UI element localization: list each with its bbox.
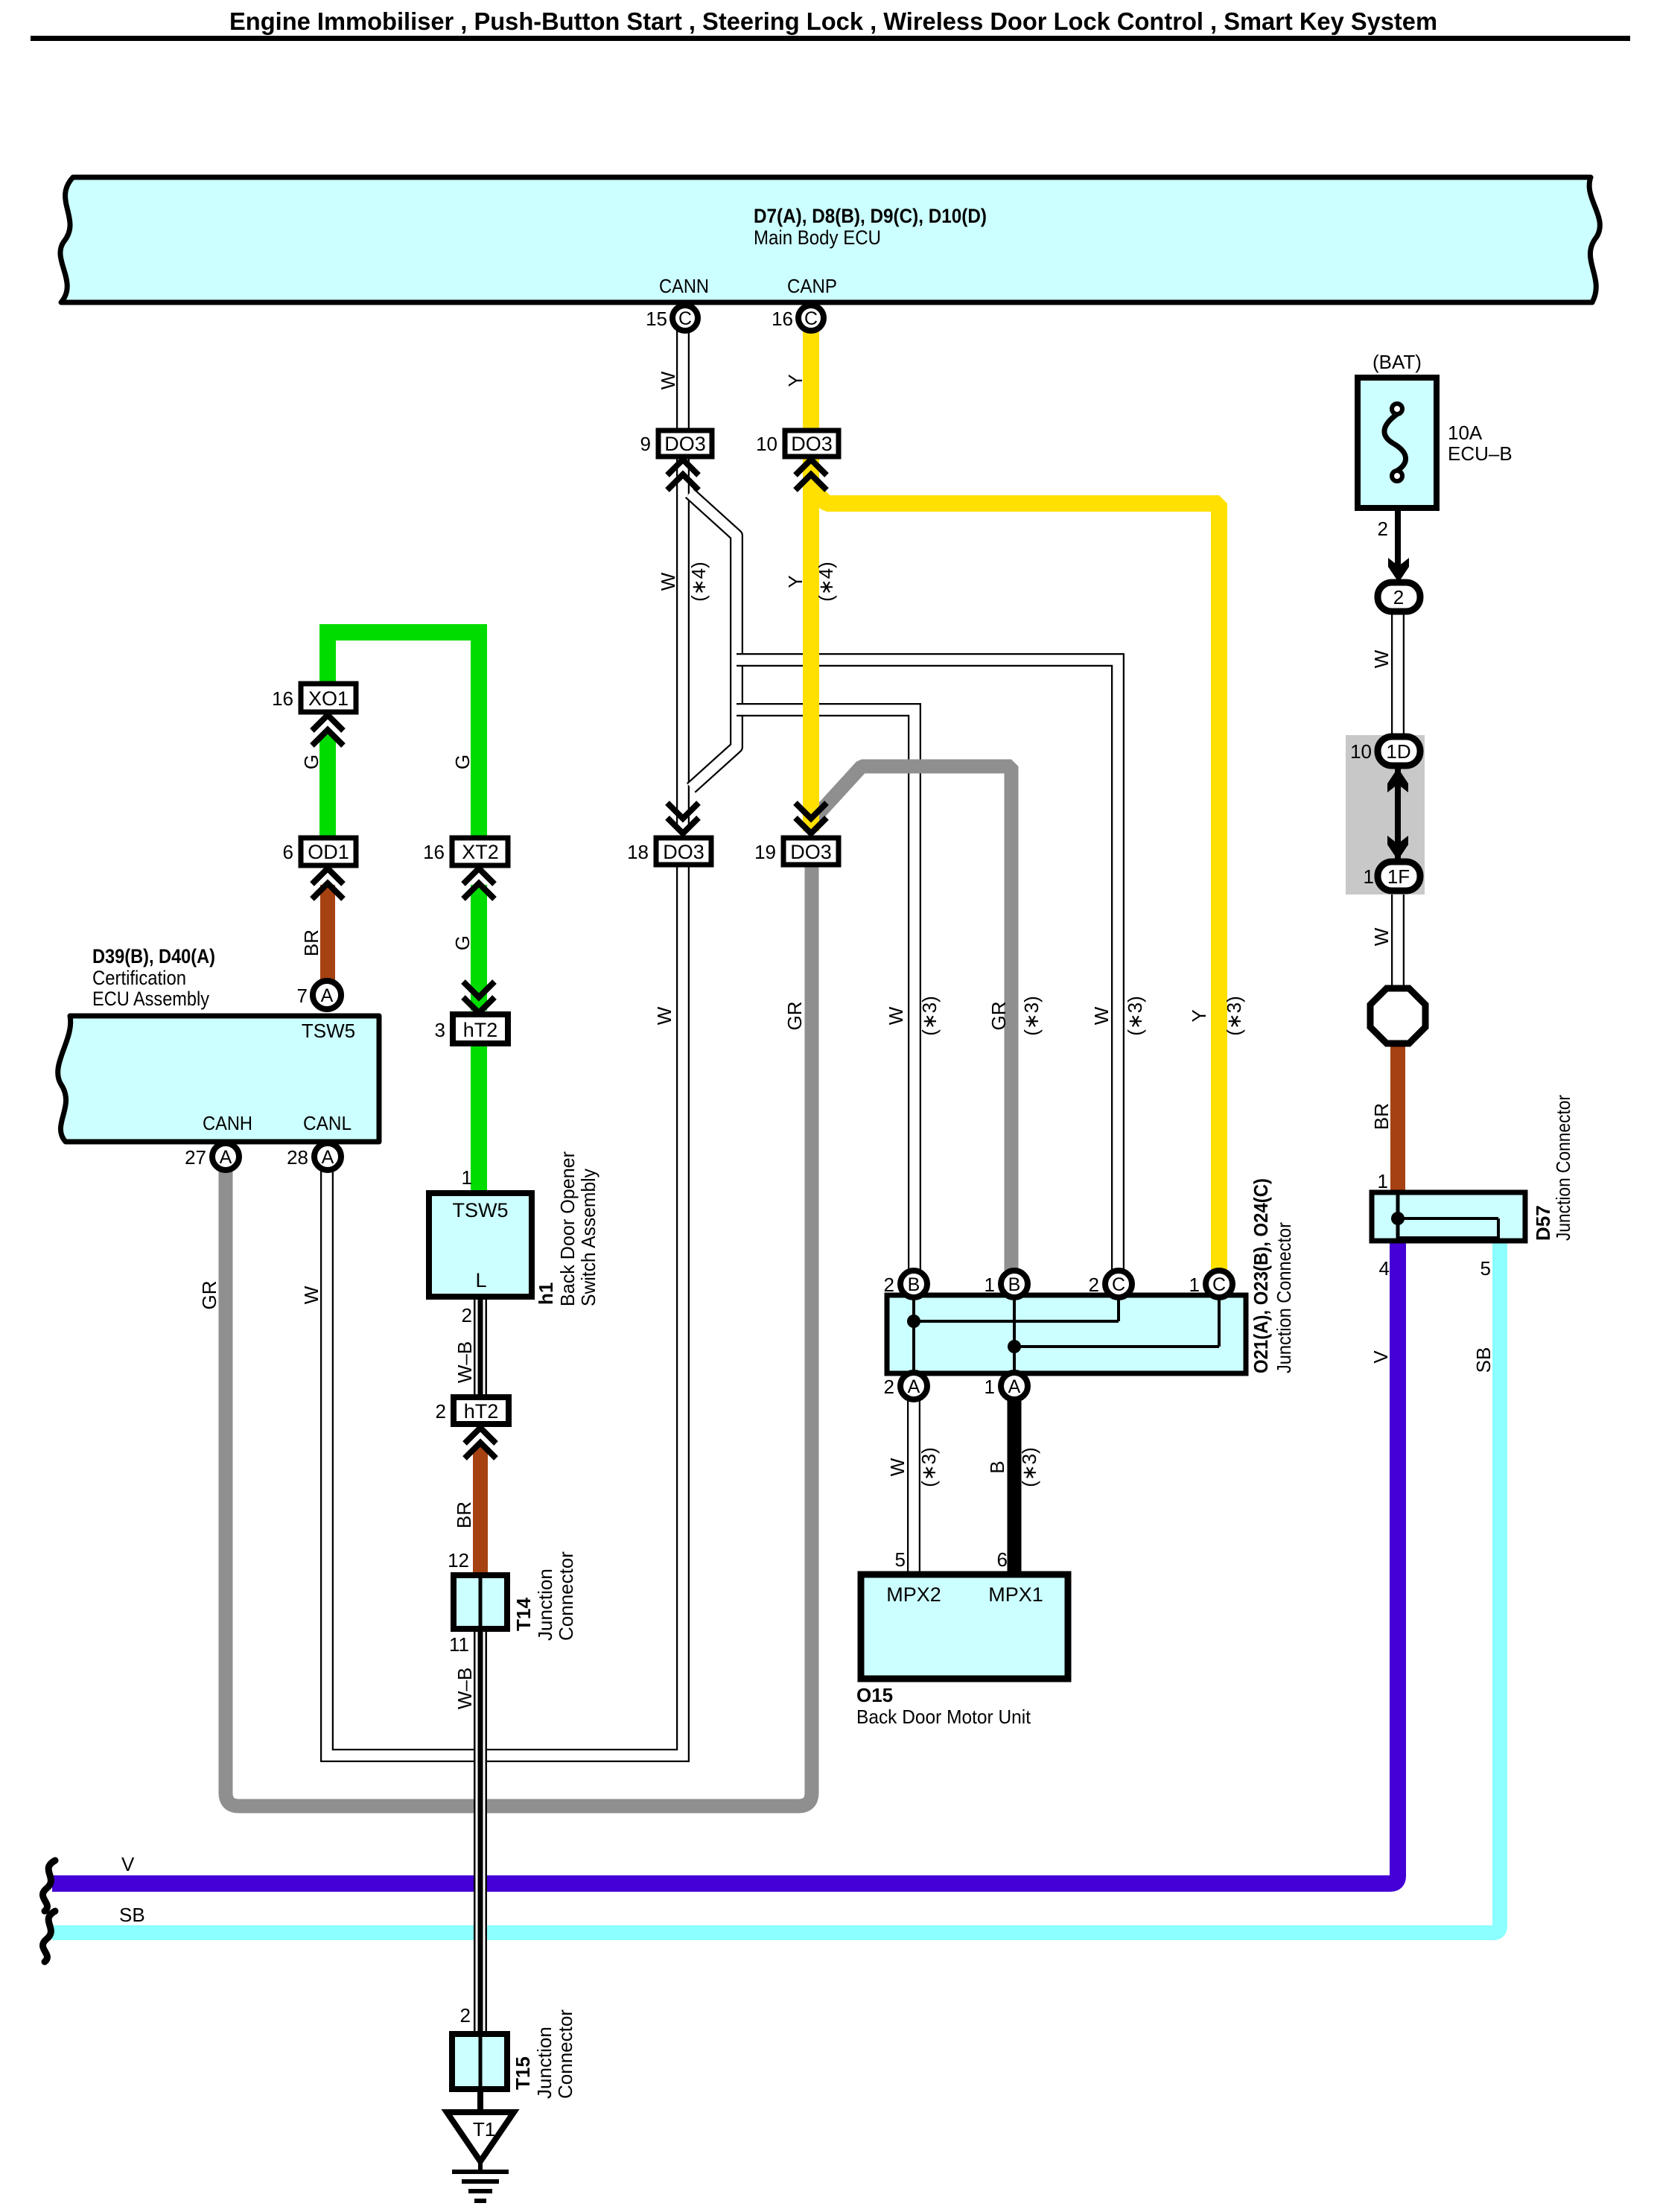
wire BR below hT2 2 chevron to T14 pin12 xyxy=(473,1446,488,1577)
connector 18 DO3 xyxy=(627,838,711,865)
O21 pin 1A xyxy=(985,1373,1028,1399)
svg-text:W: W xyxy=(1090,1006,1113,1025)
connector 10 DO3 xyxy=(756,430,839,457)
svg-text:Back Door Motor Unit: Back Door Motor Unit xyxy=(856,1706,1031,1728)
arrow up to 1D xyxy=(1387,768,1408,792)
svg-text:Connector: Connector xyxy=(554,2009,576,2099)
svg-text:A: A xyxy=(220,1147,232,1168)
O21 pin 2B xyxy=(884,1271,927,1297)
svg-text:W–B: W–B xyxy=(454,1668,476,1709)
octagon connector xyxy=(1370,988,1425,1043)
wire W-B TSW5 pin2 to hT2 2 xyxy=(474,1297,487,1399)
svg-text:(∗3): (∗3) xyxy=(1223,996,1245,1036)
O21 pin 2C xyxy=(1089,1271,1132,1297)
arrow down to 1F xyxy=(1387,836,1408,860)
svg-text:DO3: DO3 xyxy=(790,841,832,863)
svg-text:W: W xyxy=(1370,927,1393,946)
ellipse connector 1F xyxy=(1364,862,1420,891)
chevrons above hT2 3 xyxy=(463,982,494,1013)
svg-text:2: 2 xyxy=(460,2004,471,2027)
svg-text:G: G xyxy=(451,754,474,769)
svg-text:DO3: DO3 xyxy=(663,841,704,863)
pin 15 C of Main Body ECU xyxy=(646,305,698,331)
pin 7 A of Certification ECU xyxy=(297,981,341,1009)
wire W 1F to octagon xyxy=(1391,889,1405,988)
svg-text:W–B: W–B xyxy=(454,1341,476,1383)
svg-text:T14: T14 xyxy=(512,1598,535,1631)
svg-text:Junction Connector: Junction Connector xyxy=(1552,1095,1574,1241)
svg-text:Back Door Opener: Back Door Opener xyxy=(556,1151,579,1306)
wire W from DO3 18 down, left, up to CANL 28A xyxy=(327,865,683,1755)
O21 pin 1C xyxy=(1189,1271,1232,1297)
svg-text:C: C xyxy=(804,308,818,329)
svg-text:2: 2 xyxy=(436,1400,446,1423)
svg-text:12: 12 xyxy=(448,1549,469,1571)
pin 27 A of Certification ECU xyxy=(185,1143,239,1170)
svg-text:O21(A), O23(B), O24(C): O21(A), O23(B), O24(C) xyxy=(1250,1178,1272,1373)
svg-text:9: 9 xyxy=(640,433,651,455)
fuse 10A ECU-B xyxy=(1358,378,1437,508)
chevrons below 10 DO3 xyxy=(795,460,827,490)
svg-text:G: G xyxy=(451,935,474,950)
svg-text:Switch Assembly: Switch Assembly xyxy=(577,1169,599,1306)
ellipse connector 1D xyxy=(1350,737,1420,766)
wire W-B T14 pin11 to T15 pin2 xyxy=(474,1629,487,2035)
wire G hT2 3 to TSW5 pin1 xyxy=(471,1043,487,1195)
svg-text:D39(B), D40(A): D39(B), D40(A) xyxy=(92,945,215,967)
svg-text:4: 4 xyxy=(1379,1257,1390,1280)
svg-text:16: 16 xyxy=(423,841,445,863)
chevrons below OD1 xyxy=(312,868,343,899)
svg-text:16: 16 xyxy=(772,308,793,330)
svg-text:V: V xyxy=(121,1853,135,1875)
svg-text:C: C xyxy=(1112,1274,1125,1295)
svg-text:XT2: XT2 xyxy=(462,841,499,863)
svg-text:6: 6 xyxy=(283,841,293,863)
svg-text:O15: O15 xyxy=(856,1684,893,1706)
svg-text:Certification: Certification xyxy=(92,967,186,989)
grey block 1D-1F xyxy=(1346,735,1425,894)
svg-text:2: 2 xyxy=(1089,1274,1099,1296)
svg-text:CANP: CANP xyxy=(787,275,837,297)
svg-text:16: 16 xyxy=(272,687,293,710)
svg-text:L: L xyxy=(475,1269,486,1291)
svg-text:10: 10 xyxy=(756,433,777,455)
svg-text:W: W xyxy=(885,1006,907,1025)
svg-text:1: 1 xyxy=(1189,1274,1200,1296)
svg-text:CANN: CANN xyxy=(659,275,709,297)
WIRES-COLOR xyxy=(52,331,1500,2112)
svg-text:10A: 10A xyxy=(1448,422,1483,444)
svg-text:1: 1 xyxy=(1364,865,1374,888)
svg-text:W: W xyxy=(657,371,679,390)
svg-text:Junction: Junction xyxy=(533,2027,556,2099)
wire Y CANP 16C down to DO3 19 xyxy=(803,331,819,831)
svg-text:Main Body ECU: Main Body ECU xyxy=(754,226,881,249)
pin 16 C of Main Body ECU xyxy=(772,305,824,331)
svg-text:MPX2: MPX2 xyxy=(886,1583,941,1606)
svg-text:18: 18 xyxy=(627,841,649,863)
svg-text:1: 1 xyxy=(985,1376,995,1398)
svg-text:TSW5: TSW5 xyxy=(452,1199,508,1221)
wire B O21 1A to O15 MPX1 xyxy=(1008,1399,1022,1574)
svg-text:1D: 1D xyxy=(1386,740,1410,763)
wire W ellipse2 to 1D xyxy=(1391,609,1405,738)
O15 Back Door Motor Unit box xyxy=(861,1548,1068,1679)
chevrons above 19 DO3 xyxy=(795,803,827,833)
svg-text:BR: BR xyxy=(1370,1103,1393,1130)
svg-text:(∗3): (∗3) xyxy=(918,996,941,1036)
svg-text:Y: Y xyxy=(784,374,807,387)
svg-text:15: 15 xyxy=(646,308,667,330)
svg-text:2: 2 xyxy=(1393,586,1404,608)
wire BR below OD1 chevron to pin 7A xyxy=(320,885,335,981)
svg-text:6: 6 xyxy=(997,1548,1008,1571)
svg-text:T1: T1 xyxy=(473,2118,495,2141)
ellipse connector 2 xyxy=(1378,582,1420,611)
svg-text:ECU–B: ECU–B xyxy=(1448,442,1513,465)
svg-text:Junction: Junction xyxy=(534,1569,556,1641)
TSW5 Back Door Opener Switch h1 xyxy=(429,1193,532,1297)
wire V D57 pin4 down and across xyxy=(52,1241,1398,1884)
wire Y (*3) branch to O21 1C xyxy=(813,490,1219,1271)
svg-text:W: W xyxy=(657,572,679,591)
svg-text:h1: h1 xyxy=(535,1283,557,1305)
Certification ECU Assembly box D39 D40 xyxy=(58,1016,379,1142)
svg-text:C: C xyxy=(1212,1274,1226,1295)
svg-text:(∗4): (∗4) xyxy=(687,562,710,602)
svg-text:A: A xyxy=(1008,1376,1021,1397)
svg-text:CANH: CANH xyxy=(203,1112,252,1134)
svg-text:W: W xyxy=(300,1285,322,1304)
ground T1 xyxy=(447,2112,514,2201)
wire W (*3) branch to O21 2B xyxy=(737,710,915,1271)
svg-text:hT2: hT2 xyxy=(464,1400,499,1423)
svg-text:XO1: XO1 xyxy=(308,687,349,710)
connector 16 XO1 xyxy=(272,684,356,712)
svg-text:B: B xyxy=(1008,1274,1021,1295)
svg-text:(∗3): (∗3) xyxy=(1020,996,1043,1036)
title rule xyxy=(31,36,1630,41)
wire SB D57 pin5 down and across xyxy=(52,1241,1500,1933)
O21 junction connector box xyxy=(887,1295,1246,1373)
svg-text:B: B xyxy=(908,1274,920,1295)
svg-text:7: 7 xyxy=(297,985,308,1007)
wire W (*3) O21 2A to O15 MPX2 xyxy=(907,1399,920,1574)
connector 3 hT2 xyxy=(435,1014,508,1043)
svg-text:BR: BR xyxy=(453,1501,475,1528)
T15 junction connector xyxy=(452,2034,507,2089)
svg-text:Engine Immobiliser , Push-Butt: Engine Immobiliser , Push-Button Start ,… xyxy=(229,7,1437,35)
wire W (*3) bulge fork below 9 DO3 xyxy=(690,493,737,788)
svg-text:1: 1 xyxy=(985,1274,995,1296)
connector 6 OD1 xyxy=(283,838,356,865)
svg-text:2: 2 xyxy=(462,1304,472,1326)
Main Body ECU box D7-D10 xyxy=(60,177,1600,302)
squiggle SB xyxy=(42,1911,55,1962)
chevrons below XT2 xyxy=(463,868,494,899)
wire W CANN 15C down to DO3 18 xyxy=(676,331,690,831)
svg-text:(BAT): (BAT) xyxy=(1372,351,1422,373)
connector 9 DO3 xyxy=(640,430,712,457)
WIRES-WHITE xyxy=(327,331,1398,1755)
connector 16 XT2 xyxy=(423,838,508,865)
svg-text:hT2: hT2 xyxy=(463,1019,498,1041)
arrow below fuse xyxy=(1388,558,1409,582)
chevrons below XO1 xyxy=(312,715,343,746)
svg-text:V: V xyxy=(1370,1350,1392,1364)
svg-text:D57: D57 xyxy=(1532,1205,1554,1241)
svg-text:OD1: OD1 xyxy=(308,841,349,863)
svg-text:DO3: DO3 xyxy=(664,433,706,455)
svg-text:DO3: DO3 xyxy=(791,433,833,455)
svg-text:TSW5: TSW5 xyxy=(302,1020,355,1042)
wire GR (*3) from DO3 19 to O21 1B xyxy=(813,766,1011,1271)
svg-text:BR: BR xyxy=(300,929,322,956)
svg-text:(∗3): (∗3) xyxy=(1018,1447,1040,1487)
svg-text:Connector: Connector xyxy=(555,1551,577,1641)
pin 28 A of Certification ECU xyxy=(287,1143,341,1170)
svg-text:Junction Connector: Junction Connector xyxy=(1273,1222,1295,1373)
O21 pin 1B xyxy=(985,1271,1028,1297)
connector 19 DO3 xyxy=(754,838,839,865)
svg-text:SB: SB xyxy=(119,1904,145,1926)
O21 pin 2A xyxy=(884,1373,927,1399)
svg-text:3: 3 xyxy=(435,1019,445,1041)
svg-text:T15: T15 xyxy=(512,2056,534,2090)
chevrons below 9 DO3 xyxy=(667,460,699,490)
svg-text:19: 19 xyxy=(754,841,776,863)
svg-text:GR: GR xyxy=(783,1002,806,1031)
squiggle V xyxy=(42,1860,55,1911)
wire G below XT2 to hT2 3 xyxy=(471,885,487,1011)
svg-text:(∗3): (∗3) xyxy=(917,1447,940,1487)
svg-text:2: 2 xyxy=(1378,518,1388,540)
svg-text:1: 1 xyxy=(462,1166,472,1189)
svg-text:W: W xyxy=(1370,649,1393,668)
wire G below XO1 chevron to OD1 xyxy=(319,734,336,839)
svg-text:11: 11 xyxy=(449,1633,469,1656)
svg-text:2: 2 xyxy=(884,1376,894,1398)
connector 2 hT2 xyxy=(436,1397,509,1424)
svg-text:ECU Assembly: ECU Assembly xyxy=(92,988,209,1010)
svg-text:MPX1: MPX1 xyxy=(988,1583,1043,1606)
svg-text:C: C xyxy=(678,308,692,329)
chevrons below 2 hT2 xyxy=(465,1428,496,1458)
svg-text:GR: GR xyxy=(987,1002,1010,1031)
svg-text:A: A xyxy=(908,1376,920,1397)
svg-text:GR: GR xyxy=(198,1281,220,1310)
svg-text:W: W xyxy=(886,1458,909,1476)
svg-text:Y: Y xyxy=(784,575,807,588)
svg-text:1: 1 xyxy=(1378,1170,1388,1192)
wire GR CANH 27A down, right, up to DO3 19 xyxy=(226,865,812,1806)
svg-text:28: 28 xyxy=(287,1146,308,1169)
D57 junction connector xyxy=(1372,1192,1525,1241)
svg-text:CANL: CANL xyxy=(303,1112,352,1134)
svg-text:B: B xyxy=(986,1461,1008,1473)
svg-text:SB: SB xyxy=(1472,1347,1495,1373)
svg-text:A: A xyxy=(322,1147,334,1168)
svg-text:W: W xyxy=(653,1006,675,1025)
svg-text:5: 5 xyxy=(1480,1257,1491,1280)
svg-text:1F: 1F xyxy=(1387,865,1410,888)
svg-text:27: 27 xyxy=(185,1146,206,1169)
svg-text:A: A xyxy=(321,985,334,1006)
svg-text:(∗4): (∗4) xyxy=(815,562,837,602)
wire T15 to ground T1 xyxy=(477,2089,483,2112)
svg-text:5: 5 xyxy=(895,1548,906,1571)
T14 junction connector xyxy=(454,1575,507,1629)
svg-text:10: 10 xyxy=(1350,740,1372,763)
svg-text:Y: Y xyxy=(1188,1009,1210,1022)
wire 1D to 1F xyxy=(1395,764,1401,862)
wire G loop XO1 to XT2 xyxy=(328,632,479,839)
chevrons above 18 DO3 xyxy=(667,803,699,833)
svg-text:G: G xyxy=(300,754,322,769)
wire W (*3) branch to O21 2C xyxy=(737,660,1118,1271)
wire from fuse to arrow xyxy=(1395,506,1401,572)
svg-text:(∗3): (∗3) xyxy=(1124,996,1146,1036)
svg-text:2: 2 xyxy=(884,1274,894,1296)
svg-text:D7(A), D8(B), D9(C), D10(D): D7(A), D8(B), D9(C), D10(D) xyxy=(754,205,987,227)
wire BR octagon to D57 pin1 xyxy=(1390,1042,1405,1194)
